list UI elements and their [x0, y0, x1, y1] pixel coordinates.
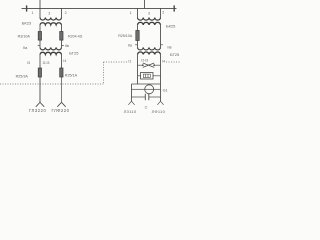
wire: right column b winding down	[160, 54, 162, 97]
svg-text:R3/10A: R3/10A	[18, 34, 31, 38]
svg-text:1: 1	[32, 11, 34, 15]
transformer BK25 primary winding	[138, 18, 161, 21]
generator wire left	[132, 88, 145, 90]
generator wire right	[154, 88, 161, 90]
dashed link: horizontal run y=84	[0, 83, 103, 85]
dashed link: stub to right edge y=62	[166, 61, 180, 63]
resistor R25/3A	[38, 68, 41, 77]
svg-text:R204.4Ω: R204.4Ω	[68, 34, 83, 38]
svg-text:ЛФ110: ЛФ110	[152, 109, 166, 114]
filter box lead right	[153, 75, 161, 77]
svg-text:I3: I3	[27, 61, 30, 65]
earth fork left	[128, 101, 134, 105]
svg-text:R25/10A: R25/10A	[118, 34, 133, 38]
wire: bridge y=84	[132, 83, 161, 85]
bus tick left	[26, 5, 28, 11]
wire: left feeder drop from top edge through bus	[39, 0, 41, 18]
terminal tick II1	[135, 44, 137, 46]
svg-text:I1: I1	[128, 60, 131, 64]
svg-text:2: 2	[65, 11, 67, 15]
feeder fork GLF220	[57, 102, 65, 107]
transformer BG25 (right) primary winding	[138, 47, 161, 50]
svg-text:3: 3	[48, 12, 50, 16]
svg-text:I4: I4	[63, 59, 66, 63]
wire: column a to resistor R25/3A	[39, 54, 41, 68]
capacitor wire left	[132, 96, 146, 98]
crossover lead left with junction dot	[138, 64, 143, 66]
terminal tick II2	[161, 44, 163, 46]
wire: left circuit terminal 2 lead to bus	[61, 8, 63, 17]
wire: column b to resistor R25/1A	[61, 54, 63, 68]
resistor R25/1A	[60, 68, 63, 77]
svg-text:ЛЗ110: ЛЗ110	[124, 109, 137, 114]
svg-text:I2-I3: I2-I3	[141, 59, 148, 63]
transformer BG25 primary winding	[40, 47, 62, 49]
svg-text:3: 3	[148, 11, 150, 15]
svg-text:ГЛЗ220: ГЛЗ220	[29, 108, 46, 113]
svg-text:ГЛФ220: ГЛФ220	[52, 108, 70, 113]
bus (top busbar)	[22, 7, 177, 9]
earth fork right	[157, 101, 163, 105]
wire: right column a resistor to winding	[137, 41, 139, 48]
wire: column b resistor to winding BG25	[61, 40, 63, 47]
transformer BK25 secondary winding	[138, 22, 161, 24]
transformer BG25 secondary winding	[40, 52, 62, 54]
terminal tick IIa	[38, 45, 40, 47]
wire: left column a (x=40) winding to resistor	[39, 25, 41, 32]
dashed link: horizontal run y=62 to right circuit	[103, 61, 128, 63]
resistor R204.4	[60, 32, 63, 41]
feeder fork GLZ220	[36, 102, 44, 107]
generator G1 circle	[145, 85, 154, 94]
svg-text:R25/1A: R25/1A	[65, 73, 78, 77]
svg-text:R25/3A: R25/3A	[16, 75, 29, 79]
capacitor C plates	[144, 94, 146, 100]
wire: left earth stub	[131, 97, 133, 101]
svg-text:1: 1	[130, 11, 132, 15]
svg-text:C: C	[145, 104, 148, 109]
svg-text:БК25: БК25	[166, 24, 176, 29]
wire: right circuit terminal 2 lead to bus	[160, 8, 162, 17]
filter box	[141, 73, 154, 80]
svg-text:БГ25: БГ25	[170, 52, 180, 57]
crossover X	[143, 63, 154, 67]
capacitor wire right	[149, 96, 161, 98]
resistor R25/10A	[136, 31, 139, 41]
resistor R3/10A	[38, 32, 41, 41]
svg-text:БК23: БК23	[22, 21, 32, 26]
wire: right circuit terminal 1 lead to bus	[137, 8, 139, 17]
wire: right column a winding to box	[137, 54, 139, 84]
crossover lead right with junction dot	[154, 64, 160, 66]
generator diameter line	[145, 88, 154, 90]
wire: right earth stub	[160, 97, 162, 101]
wire: column a resistor to winding BG25	[39, 40, 41, 47]
wire: right column a winding to resistor	[137, 25, 139, 31]
svg-text:БГ25: БГ25	[69, 50, 79, 55]
svg-text:I4: I4	[162, 59, 165, 63]
wire: left branch down	[131, 84, 133, 97]
svg-text:IIв: IIв	[167, 46, 171, 50]
svg-text:G1: G1	[163, 88, 168, 92]
terminal tick IIb	[62, 45, 64, 47]
filter box lead left	[138, 75, 141, 77]
dashed link: vertical riser x=103.4	[102, 62, 104, 84]
wire: left column b (x=61.5) winding to resistor	[61, 25, 63, 32]
wire: column b down to feeder fork	[61, 77, 63, 102]
svg-text:IIв: IIв	[65, 44, 69, 48]
wire: column a down to feeder fork	[39, 77, 41, 102]
wire: right feeder drop from top edge to bus	[144, 0, 146, 9]
wire: right column b continuous	[160, 25, 162, 48]
filter box inner element	[143, 74, 150, 77]
svg-text:2: 2	[162, 11, 164, 15]
transformer BK23 primary winding	[40, 18, 62, 20]
bus tick right	[173, 5, 175, 11]
svg-text:I2-I3: I2-I3	[43, 61, 50, 65]
transformer BK23 secondary winding	[40, 23, 62, 25]
transformer BG25 (right) secondary winding	[138, 52, 161, 54]
